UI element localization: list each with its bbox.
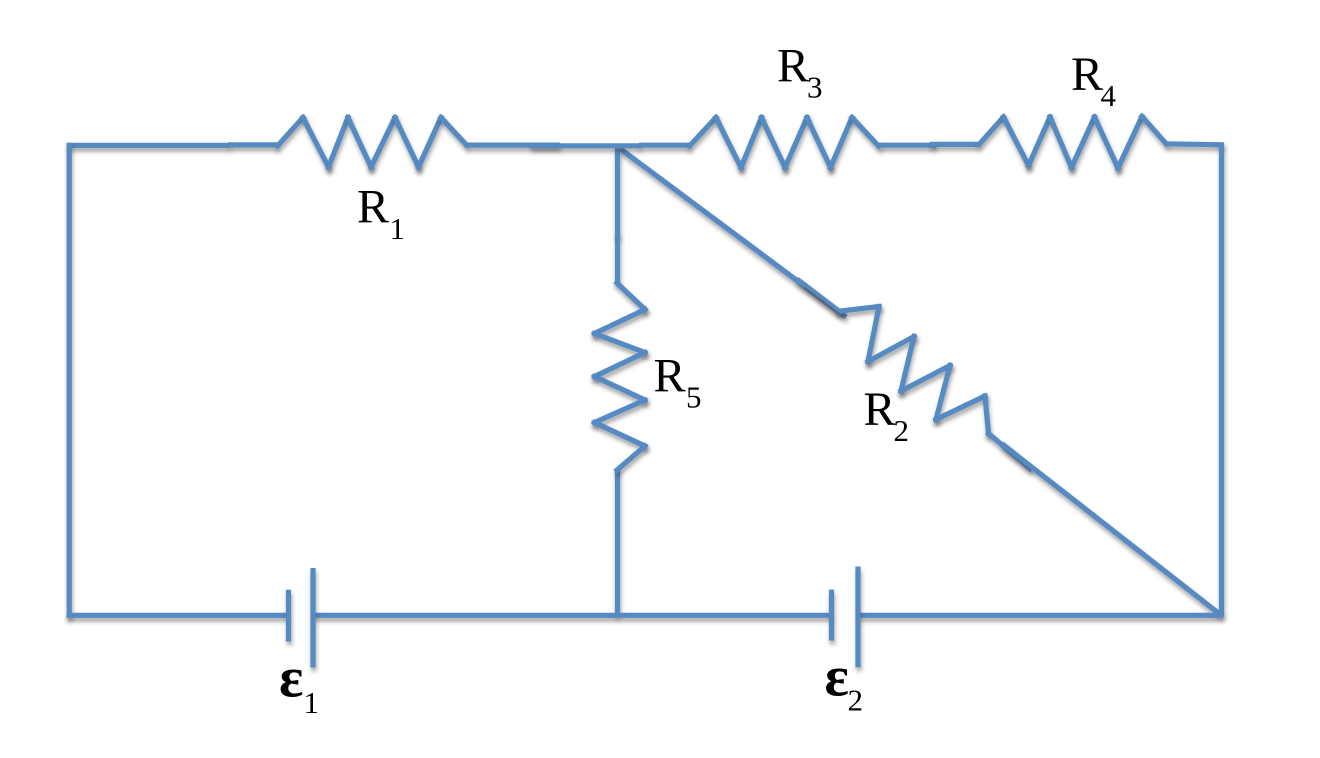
svg-text:R: R <box>654 350 686 403</box>
svg-text:ε: ε <box>825 646 849 709</box>
svg-text:2: 2 <box>894 413 910 448</box>
svg-text:ε: ε <box>279 647 303 710</box>
svg-text:R: R <box>777 40 809 93</box>
svg-text:1: 1 <box>304 685 320 720</box>
svg-text:3: 3 <box>807 70 823 105</box>
svg-text:R: R <box>1071 48 1103 101</box>
svg-text:4: 4 <box>1101 78 1117 113</box>
svg-text:R: R <box>357 181 389 234</box>
svg-text:1: 1 <box>390 211 406 246</box>
svg-text:R: R <box>864 383 896 436</box>
svg-text:2: 2 <box>848 683 864 718</box>
svg-text:5: 5 <box>686 380 702 415</box>
